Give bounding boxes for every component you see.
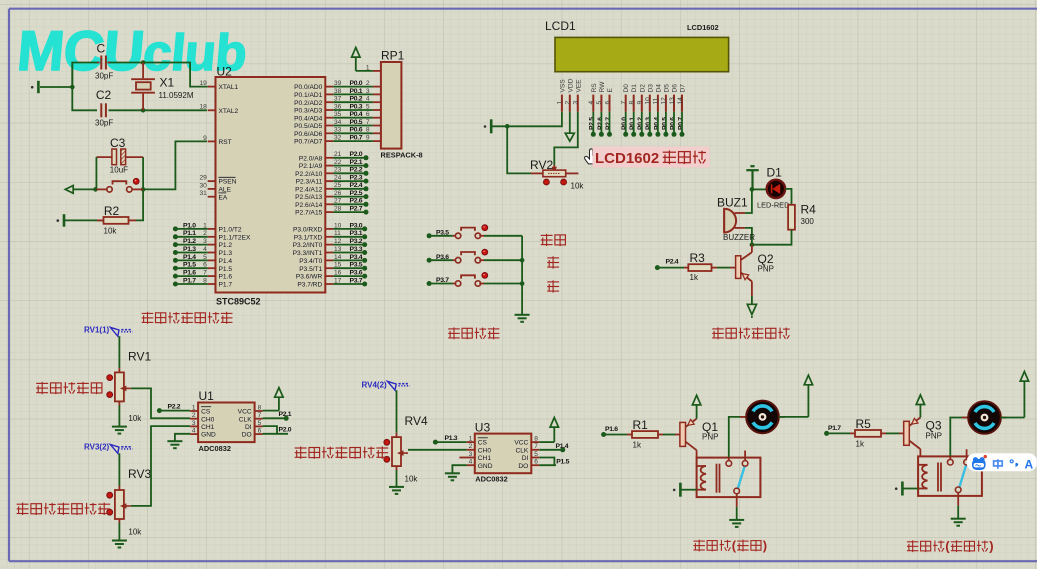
- svg-text:9: 9: [203, 135, 207, 142]
- wires P0 bus to RP1: [333, 86, 373, 88]
- node P2.4: [655, 265, 660, 270]
- svg-text:P0.3: P0.3: [350, 103, 363, 110]
- buzzer BUZ1: [724, 209, 734, 233]
- svg-text:P2.4: P2.4: [666, 258, 679, 265]
- svg-text:P2.0: P2.0: [350, 151, 363, 158]
- svg-text:P2.7: P2.7: [605, 117, 612, 130]
- wire motor1 left: [729, 417, 746, 457]
- svg-text:CH1: CH1: [201, 424, 215, 431]
- svg-text:RST: RST: [219, 139, 232, 146]
- crystal X1: [142, 63, 144, 79]
- svg-text:P3.3: P3.3: [350, 246, 363, 253]
- svg-text:10k: 10k: [128, 528, 142, 537]
- push button P3.7: [429, 283, 453, 285]
- node P3.6: [427, 258, 432, 263]
- svg-text:P1.4: P1.4: [183, 254, 196, 261]
- svg-text:CS: CS: [478, 440, 488, 447]
- relay RL2: [918, 456, 982, 496]
- ground G4: [515, 315, 530, 322]
- ground arrow terminal: [65, 186, 73, 194]
- ground G6: [112, 427, 127, 434]
- power arrow Q1: [696, 410, 698, 419]
- wire RV3 to ground: [118, 523, 120, 541]
- ground G11 relay coil: [681, 489, 697, 491]
- svg-text:7: 7: [621, 101, 628, 105]
- ground G2: [63, 214, 66, 227]
- svg-text:RV4(2): RV4(2): [362, 380, 388, 389]
- power arrow U3: [553, 427, 555, 442]
- diode D1 LED-RED: [767, 180, 785, 198]
- power arrow M1: [807, 385, 809, 417]
- svg-text:P0.2: P0.2: [637, 117, 644, 130]
- svg-text:P2.2: P2.2: [168, 404, 181, 411]
- svg-text:13: 13: [669, 97, 676, 105]
- transistor Q1 PNP: [680, 422, 686, 446]
- svg-text:CH0: CH0: [201, 416, 215, 423]
- svg-text:(: (: [732, 538, 737, 553]
- svg-text:31: 31: [199, 190, 207, 197]
- svg-text:4: 4: [588, 101, 595, 105]
- svg-text:P1.1: P1.1: [183, 230, 196, 237]
- motor fan M1: [740, 416, 751, 418]
- svg-text:D7: D7: [680, 84, 687, 93]
- svg-text:MCUclub: MCUclub: [15, 19, 249, 82]
- svg-text:5: 5: [534, 451, 538, 458]
- svg-text:C3: C3: [110, 136, 126, 150]
- svg-text:P3.5/T1: P3.5/T1: [299, 266, 322, 273]
- svg-text:6: 6: [366, 111, 370, 118]
- svg-text:10k: 10k: [128, 414, 142, 423]
- resistor R1: [604, 434, 627, 436]
- svg-text:P2.3: P2.3: [350, 175, 363, 182]
- junction: [750, 242, 755, 247]
- wire to common: [484, 283, 522, 285]
- svg-text:VSS: VSS: [559, 79, 566, 93]
- svg-text:P0.7: P0.7: [350, 135, 363, 142]
- svg-text:P3.7: P3.7: [350, 277, 363, 284]
- svg-text:ADC0832: ADC0832: [199, 444, 231, 453]
- node P2.x wires: [333, 157, 366, 159]
- svg-text:6: 6: [534, 459, 538, 466]
- svg-text:GND: GND: [201, 432, 216, 439]
- svg-text:3: 3: [469, 451, 473, 458]
- svg-text:RV2: RV2: [530, 158, 553, 172]
- svg-text:4: 4: [469, 459, 473, 466]
- svg-text:VCC: VCC: [238, 409, 252, 416]
- wire net RST: [143, 141, 207, 189]
- capacitor C3: [96, 156, 112, 158]
- svg-text:P0.5/AD5: P0.5/AD5: [294, 123, 323, 130]
- svg-text:P2.1/A9: P2.1/A9: [299, 163, 323, 170]
- wire U3 GND to ground: [452, 465, 466, 473]
- svg-text:29: 29: [199, 175, 207, 182]
- svg-text:DO: DO: [242, 432, 252, 439]
- svg-text:9: 9: [366, 135, 370, 142]
- svg-text:P1.3: P1.3: [183, 246, 196, 253]
- junction: [505, 124, 510, 129]
- svg-text:2: 2: [565, 101, 572, 105]
- power arrow Q3: [919, 410, 921, 418]
- wire RP1 pin1 to VCC: [373, 70, 381, 72]
- svg-text:3: 3: [192, 420, 196, 427]
- ground G5 top: [746, 166, 758, 189]
- ground down-arrow terminal: [751, 296, 753, 304]
- label 甲醛气体值调节: [295, 446, 389, 458]
- resistor R2: [104, 217, 129, 224]
- wire U3 DI/DO tie: [539, 458, 554, 466]
- svg-text:P0.3/AD3: P0.3/AD3: [294, 108, 323, 115]
- svg-text:30: 30: [199, 182, 207, 189]
- svg-text:D6: D6: [672, 84, 679, 93]
- svg-text:P0.6: P0.6: [669, 117, 676, 130]
- svg-text:P2.5/A13: P2.5/A13: [295, 194, 322, 201]
- 中 glyph: [994, 459, 1003, 469]
- junction: [141, 60, 146, 65]
- wire Q1 collector to relay: [696, 450, 698, 457]
- svg-text:P1.6: P1.6: [605, 426, 618, 433]
- svg-text:R1: R1: [633, 418, 649, 432]
- svg-text:X1: X1: [160, 76, 175, 90]
- wire C3 left to reset node: [73, 157, 96, 189]
- op-amp U2 MCU STC89C52: [216, 77, 326, 293]
- svg-text:P3.0/RXD: P3.0/RXD: [293, 227, 323, 234]
- IME toolbar overlay: [967, 453, 1037, 471]
- svg-text:RP1: RP1: [381, 49, 405, 63]
- svg-text:P1.7: P1.7: [183, 277, 196, 284]
- svg-text:LCD1: LCD1: [545, 19, 576, 33]
- junction: [520, 281, 525, 286]
- node P1.3: [435, 441, 466, 443]
- svg-text:7: 7: [258, 412, 262, 419]
- svg-text:CH0: CH0: [478, 447, 492, 454]
- svg-text:8: 8: [366, 127, 370, 134]
- node P2.1: [263, 417, 287, 419]
- transistor Q2 PNP: [736, 256, 741, 279]
- svg-text:P3.6: P3.6: [350, 270, 363, 277]
- svg-text:P1.5: P1.5: [219, 266, 233, 273]
- svg-text:CH1: CH1: [478, 455, 492, 462]
- ground G12: [729, 520, 744, 527]
- svg-text:P0.6/AD6: P0.6/AD6: [294, 131, 323, 138]
- svg-text:DI: DI: [522, 455, 529, 462]
- wire gnd to LED: [753, 188, 767, 190]
- wire probe to RV4: [396, 390, 398, 433]
- svg-text:P3.1/TXD: P3.1/TXD: [294, 234, 323, 241]
- wire to common: [484, 259, 522, 261]
- svg-text:P3.4/T0: P3.4/T0: [299, 258, 322, 265]
- svg-text:300: 300: [801, 217, 815, 226]
- svg-text:10k: 10k: [405, 475, 419, 484]
- svg-text:P0.6: P0.6: [350, 127, 363, 134]
- resistor R5: [827, 432, 850, 434]
- transistor Q3 PNP: [904, 421, 910, 445]
- capacitor C1: [101, 56, 106, 70]
- svg-text:D1: D1: [631, 84, 638, 93]
- svg-text:LCD1602: LCD1602: [687, 23, 719, 32]
- svg-text:6: 6: [258, 428, 262, 435]
- svg-text:10uF: 10uF: [110, 166, 128, 175]
- svg-text:C: C: [97, 42, 106, 56]
- node P1.x wires: [175, 228, 207, 230]
- wire RV4 wiper to U3 CH0: [408, 449, 467, 451]
- wire VSS to ground: [492, 112, 562, 127]
- svg-text:D5: D5: [663, 84, 670, 93]
- svg-text:XTAL1: XTAL1: [219, 84, 239, 91]
- LCD1 LCD1602 display: [555, 37, 729, 71]
- svg-text:5: 5: [366, 103, 370, 110]
- label relay purifier: [907, 540, 945, 552]
- junction: [70, 85, 75, 90]
- wire U1 VCC to power: [263, 410, 279, 412]
- push button P3.6: [429, 259, 453, 261]
- svg-text:D2: D2: [639, 84, 646, 93]
- svg-text:P2.7/A15: P2.7/A15: [295, 210, 322, 217]
- svg-text:VDD: VDD: [567, 78, 574, 92]
- wire RV4 to ground: [396, 470, 398, 487]
- svg-text:ADC0832: ADC0832: [475, 475, 507, 484]
- node P3.7: [427, 281, 432, 286]
- LCD pin stubs and names: [561, 95, 563, 112]
- svg-text:2: 2: [366, 80, 370, 87]
- svg-text:P1.6: P1.6: [219, 274, 233, 281]
- wire button common vertical: [521, 236, 523, 315]
- svg-text:30pF: 30pF: [95, 72, 113, 81]
- potentiometer RV4: [396, 433, 398, 437]
- svg-text:P2.6: P2.6: [350, 198, 363, 205]
- svg-text:RV3: RV3: [128, 467, 151, 481]
- potentiometer RV1: [118, 368, 120, 372]
- push button P3.5: [429, 235, 453, 237]
- wire RV1 to ground: [118, 405, 120, 426]
- junction: [750, 187, 755, 192]
- svg-text:P2.5: P2.5: [350, 190, 363, 197]
- svg-text:P0.0: P0.0: [621, 117, 628, 130]
- svg-text:19: 19: [199, 80, 207, 87]
- svg-text:6: 6: [604, 101, 611, 105]
- wire relay2 pole to ground: [957, 506, 959, 519]
- svg-text:3: 3: [573, 101, 580, 105]
- ground G3: [490, 119, 493, 133]
- label 加: [547, 256, 559, 268]
- label relay fan: [693, 540, 731, 552]
- svg-text:RV1: RV1: [128, 350, 151, 364]
- svg-text:P2.0/A8: P2.0/A8: [299, 155, 323, 162]
- reset button: [96, 188, 106, 190]
- svg-text:XTAL2: XTAL2: [219, 108, 239, 115]
- LCD data/ctrl wires with net dots: [592, 112, 594, 134]
- svg-text:12: 12: [661, 97, 668, 105]
- svg-text:P2.2/A10: P2.2/A10: [295, 171, 322, 178]
- svg-text:PSEN: PSEN: [219, 179, 237, 186]
- svg-text:10k: 10k: [104, 226, 118, 235]
- svg-text:P1.0/T2: P1.0/T2: [219, 227, 242, 234]
- svg-text:P0.5: P0.5: [661, 117, 668, 130]
- svg-text:P1.3: P1.3: [445, 435, 458, 442]
- svg-text:1k: 1k: [633, 441, 642, 450]
- svg-text:P2.7: P2.7: [350, 206, 363, 213]
- svg-text:): ): [763, 538, 767, 553]
- svg-text:P0.2/AD2: P0.2/AD2: [294, 100, 323, 107]
- svg-text:P2.6: P2.6: [597, 117, 604, 130]
- svg-text:PNP: PNP: [926, 432, 942, 441]
- svg-text:EA: EA: [219, 194, 228, 201]
- label 可燃气体值调节: [17, 503, 111, 515]
- wire probe to RV3: [118, 453, 120, 486]
- node P1.7: [824, 431, 829, 436]
- label minimal system: [142, 312, 233, 324]
- wire motor1 right to power: [779, 416, 809, 418]
- svg-text:P0.0/AD0: P0.0/AD0: [294, 84, 323, 91]
- svg-text:P2.1: P2.1: [350, 159, 363, 166]
- label 独立按键: [448, 327, 499, 339]
- op-amp U1 ADC0832: [198, 403, 255, 443]
- svg-text:1k: 1k: [856, 440, 865, 449]
- svg-text:P1.3: P1.3: [219, 250, 233, 257]
- svg-text:4: 4: [192, 428, 196, 435]
- svg-text:RV4: RV4: [405, 414, 428, 428]
- svg-text:P3.3/INT1: P3.3/INT1: [293, 250, 323, 257]
- svg-text:P1.2: P1.2: [183, 238, 196, 245]
- svg-text:P0.4: P0.4: [350, 111, 363, 118]
- junction: [141, 108, 146, 113]
- svg-text:): ): [989, 539, 993, 554]
- svg-text:P2.5: P2.5: [589, 117, 596, 130]
- node P3.x wires: [333, 228, 365, 230]
- svg-text:CS: CS: [201, 409, 211, 416]
- svg-text:D3: D3: [647, 84, 654, 93]
- svg-text:RV3(2): RV3(2): [84, 443, 110, 452]
- svg-text:VCC: VCC: [514, 440, 528, 447]
- svg-text:P2.4/A12: P2.4/A12: [295, 186, 322, 193]
- svg-text:BUZZER: BUZZER: [723, 233, 755, 242]
- wire Q3 collector to relay: [919, 449, 921, 456]
- ground G13 relay2 coil: [903, 488, 918, 490]
- relay RL1: [697, 458, 761, 498]
- wire net XTAL2/C2: [72, 63, 97, 111]
- svg-text:P0.1: P0.1: [629, 117, 636, 130]
- svg-text:P3.5: P3.5: [350, 262, 363, 269]
- label 烟雾值调节: [36, 382, 102, 394]
- svg-text:P3.6/WR: P3.6/WR: [296, 274, 323, 281]
- svg-text:1: 1: [366, 64, 370, 71]
- svg-text:P3.1: P3.1: [350, 230, 363, 237]
- svg-text:P3.0: P3.0: [350, 222, 363, 229]
- svg-text:5: 5: [258, 420, 262, 427]
- ground G9: [389, 487, 404, 494]
- svg-text:CLK: CLK: [515, 447, 528, 454]
- svg-text:RW: RW: [599, 81, 606, 93]
- svg-text:3: 3: [366, 88, 370, 95]
- node P1.6: [601, 432, 606, 437]
- svg-text:11.0592M: 11.0592M: [159, 91, 194, 100]
- svg-text:D0: D0: [623, 84, 630, 93]
- wire R4 to collector node: [752, 230, 792, 245]
- svg-text:P1.2: P1.2: [219, 242, 233, 249]
- svg-text:P1.7: P1.7: [219, 282, 233, 289]
- ground G1: [37, 81, 40, 93]
- svg-text:P0.5: P0.5: [350, 119, 363, 126]
- svg-text:P2.6/A14: P2.6/A14: [295, 202, 322, 209]
- svg-text:1: 1: [557, 101, 564, 105]
- junction: [141, 187, 146, 192]
- svg-text:CLK: CLK: [239, 416, 252, 423]
- svg-text:R2: R2: [104, 204, 120, 218]
- svg-text:U1: U1: [199, 389, 215, 403]
- svg-text:1: 1: [192, 404, 196, 411]
- wire to common: [484, 235, 522, 237]
- svg-text:DO: DO: [518, 463, 528, 470]
- label alarm circuit: [712, 327, 790, 339]
- ground G8: [167, 441, 182, 448]
- wire RV3 wiper to U1 CH1: [131, 426, 190, 506]
- junction: [93, 187, 98, 192]
- svg-text:P0.1: P0.1: [350, 88, 363, 95]
- op-amp U3 ADC0832: [475, 434, 532, 474]
- ground G7: [112, 541, 127, 548]
- wire net XTAL1/C1: [40, 63, 97, 88]
- svg-text:9: 9: [637, 101, 644, 105]
- svg-text:RS: RS: [591, 83, 598, 93]
- svg-text:VEE: VEE: [575, 79, 582, 93]
- svg-text:14: 14: [677, 97, 684, 105]
- svg-text:P0.0: P0.0: [350, 80, 363, 87]
- svg-text:P2.1: P2.1: [279, 411, 292, 418]
- label LCD1602 screen (highlighted): [593, 147, 710, 168]
- svg-text:U2: U2: [217, 65, 233, 79]
- svg-text:P1.4: P1.4: [556, 443, 569, 450]
- svg-text:10: 10: [645, 97, 652, 105]
- svg-text:1k: 1k: [690, 273, 699, 282]
- motor purifier M2: [962, 417, 973, 419]
- wire VEE to RV2 wiper: [554, 112, 578, 167]
- svg-text:P1.4: P1.4: [219, 258, 233, 265]
- potentiometer RV2: [553, 165, 555, 170]
- svg-text:P1.5: P1.5: [556, 458, 569, 465]
- svg-text:P0.7: P0.7: [677, 117, 684, 130]
- label 减: [547, 280, 559, 292]
- power VDD down arrow: [569, 112, 571, 134]
- wire U1 DI/DO tie: [263, 426, 277, 434]
- resistor R3: [657, 267, 684, 269]
- power VCC arrow: [355, 57, 357, 71]
- svg-text:C2: C2: [96, 88, 112, 102]
- wire motor2 left: [950, 418, 968, 457]
- svg-text:D4: D4: [655, 84, 662, 93]
- svg-text:P3.7/RD: P3.7/RD: [297, 282, 322, 289]
- svg-text:8: 8: [629, 101, 636, 105]
- wire RV1 wiper to U1 CH0: [131, 388, 190, 418]
- svg-text:P3.2/INT0: P3.2/INT0: [293, 242, 323, 249]
- svg-text:R5: R5: [856, 417, 872, 431]
- svg-text:RV1(1): RV1(1): [84, 326, 110, 335]
- cursor hand pointer: [585, 149, 601, 164]
- capacitor C2: [101, 103, 106, 117]
- svg-text:E: E: [607, 88, 614, 93]
- svg-text:R3: R3: [690, 251, 706, 265]
- node P1.4: [539, 449, 562, 451]
- svg-text:P0.2: P0.2: [350, 96, 363, 103]
- resistor R4: [788, 205, 795, 230]
- svg-text:R4: R4: [801, 203, 817, 217]
- svg-text:P0.4/AD4: P0.4/AD4: [294, 115, 323, 122]
- svg-text:BUZ1: BUZ1: [717, 196, 748, 210]
- power arrow U1: [278, 397, 280, 410]
- node P2.2: [159, 410, 190, 412]
- wire probe to RV1: [118, 336, 120, 368]
- wire U1 GND to ground: [175, 434, 190, 441]
- svg-text:7: 7: [366, 119, 370, 126]
- node P3.5: [427, 233, 432, 238]
